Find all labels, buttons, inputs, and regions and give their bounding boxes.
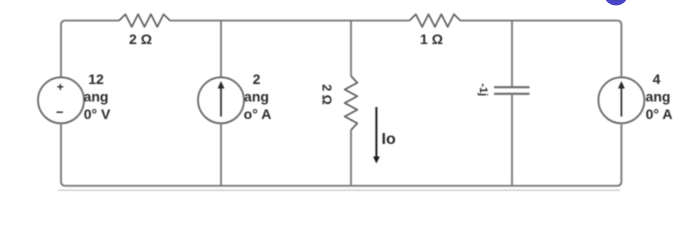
wire vertical below I1 (220, 123, 222, 186)
wire top rail right + top-right rounded corner + right vertical down to source (460, 21, 621, 78)
wire vertical node B top (source I1) (220, 21, 222, 78)
collaborator cursor dot (blue, clipped at top) (604, 0, 627, 5)
resistor R2 1Ω horizontal zigzag (409, 14, 460, 27)
svg-text:Io: Io (382, 131, 396, 148)
svg-text:2 Ω: 2 Ω (129, 31, 152, 47)
wire left vertical below V1 + bottom-left corner + bottom rail + bottom-right corner + vertical to I2 (61, 123, 621, 186)
current source I1 circle (198, 77, 244, 123)
svg-text:0° A: 0° A (646, 106, 673, 122)
capacitor C1 bottom plate (494, 93, 530, 95)
wire top rail left: left vertical + top-left rounded corner + lead to R1 (61, 21, 119, 78)
svg-text:1 Ω: 1 Ω (420, 31, 443, 47)
current arrow Io (375, 107, 377, 158)
svg-text:12: 12 (88, 71, 104, 87)
svg-text:ang: ang (84, 89, 109, 105)
current source I2 circle (598, 77, 644, 123)
svg-text:4: 4 (653, 71, 661, 87)
wire vertical node C top (resistor R3) (350, 21, 352, 76)
svg-text:-1j: -1j (477, 83, 489, 96)
wire vertical below C1 (511, 94, 513, 186)
I1 arrow up (220, 89, 222, 117)
svg-text:ang: ang (244, 89, 269, 105)
shadow line under schematic (58, 189, 620, 191)
voltage source V1 circle (38, 77, 84, 123)
svg-text:2: 2 (253, 71, 261, 87)
capacitor C1 top plate (494, 86, 530, 88)
svg-text:−: − (56, 105, 64, 120)
I2 arrow up (620, 89, 622, 117)
resistor R3 2Ω vertical zigzag (345, 76, 358, 130)
svg-text:0° V: 0° V (84, 106, 111, 122)
wire vertical node D top (capacitor C1) (511, 21, 513, 87)
svg-text:ang: ang (646, 89, 671, 105)
wire top rail middle: R1 to R2 (170, 20, 409, 22)
svg-text:+: + (57, 80, 64, 94)
wire vertical below R3 (350, 130, 352, 186)
svg-text:o° A: o° A (244, 106, 272, 122)
resistor R1 2Ω horizontal zigzag (119, 14, 170, 27)
svg-text:2 Ω: 2 Ω (320, 84, 334, 104)
